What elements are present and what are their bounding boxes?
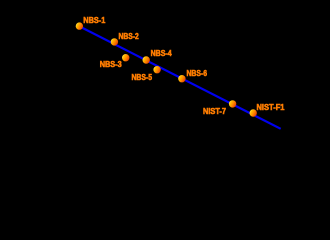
data point NIST-7: [229, 100, 236, 107]
data point NBS-2: [111, 38, 118, 45]
svg-text:NBS-4: NBS-4: [151, 48, 172, 58]
data point NBS-4: [143, 56, 150, 63]
data point NIST-F1: [250, 109, 257, 116]
svg-text:NIST-F1: NIST-F1: [257, 102, 285, 112]
svg-text:NBS-6: NBS-6: [187, 68, 208, 78]
svg-text:NBS-1: NBS-1: [83, 15, 105, 25]
svg-text:NBS-5: NBS-5: [132, 72, 153, 82]
data point NBS-5: [153, 66, 160, 73]
svg-text:NIST-7: NIST-7: [203, 106, 226, 116]
svg-text:NBS-2: NBS-2: [119, 31, 140, 41]
svg-text:NBS-3: NBS-3: [100, 59, 122, 69]
trend line: [82, 28, 281, 129]
data point NBS-1: [76, 22, 83, 29]
data point NBS-6: [178, 75, 185, 82]
data point NBS-3: [122, 54, 129, 61]
